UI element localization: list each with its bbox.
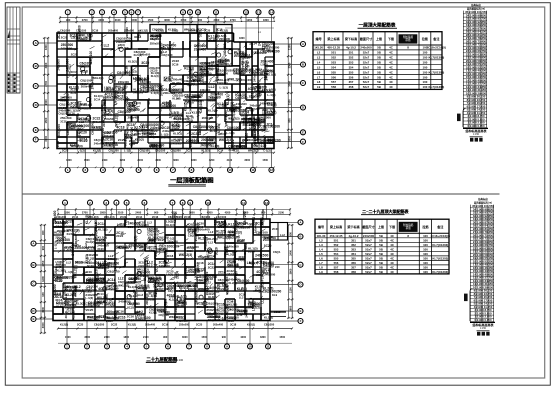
svg-text:2C25: 2C25	[127, 305, 134, 309]
svg-text:1800: 1800	[263, 18, 269, 22]
svg-text:C8@200: C8@200	[177, 284, 191, 288]
svg-text:52x7: 52x7	[365, 238, 372, 242]
svg-text:KL1(3): KL1(3)	[151, 74, 159, 78]
svg-text:2C14: 2C14	[248, 250, 255, 254]
svg-text:KL3(2): KL3(2)	[128, 59, 137, 63]
svg-text:240x600: 240x600	[171, 142, 182, 146]
svg-text:上筋: 上筋	[376, 36, 382, 41]
svg-text:L5(3): L5(3)	[89, 33, 93, 40]
svg-text:3C18: 3C18	[64, 311, 68, 318]
svg-text:KL3(2): KL3(2)	[86, 240, 95, 244]
svg-text:240x500: 240x500	[87, 288, 98, 292]
svg-text:2C16: 2C16	[172, 62, 179, 66]
svg-text:240x500: 240x500	[360, 46, 372, 50]
svg-text:240x400: 240x400	[138, 286, 150, 290]
svg-text:100: 100	[423, 243, 428, 247]
svg-text:1500: 1500	[288, 99, 292, 105]
svg-text:3C20: 3C20	[113, 75, 117, 83]
svg-text:WKL2(3): WKL2(3)	[228, 77, 242, 81]
svg-text:C8@200: C8@200	[241, 52, 245, 64]
svg-text:2C16: 2C16	[100, 104, 104, 111]
svg-text:3300: 3300	[288, 62, 292, 68]
svg-text:52x7: 52x7	[365, 256, 372, 260]
svg-text:WKL2(3): WKL2(3)	[92, 76, 103, 80]
svg-text:F: F	[302, 140, 304, 144]
svg-text:LL2: LL2	[239, 296, 244, 300]
svg-text:2C16: 2C16	[254, 121, 261, 125]
svg-text:1800: 1800	[123, 336, 129, 339]
svg-text:4C18: 4C18	[147, 98, 151, 105]
svg-text:2C14: 2C14	[94, 97, 101, 101]
svg-text:2C25: 2C25	[106, 319, 113, 323]
svg-text:C6@200: C6@200	[188, 245, 200, 249]
svg-text:2100: 2100	[137, 159, 143, 162]
svg-text:356: 356	[351, 261, 356, 265]
svg-text:KL2(5): KL2(5)	[236, 144, 245, 148]
svg-text:12: 12	[265, 201, 269, 205]
svg-text:5B: 5B	[379, 247, 383, 251]
svg-text:3C20: 3C20	[214, 247, 218, 255]
svg-text:C8@200: C8@200	[199, 100, 203, 113]
svg-text:4C18: 4C18	[86, 305, 93, 309]
svg-text:553: 553	[331, 61, 336, 65]
svg-text:3C18: 3C18	[97, 300, 105, 304]
svg-text:拉筋: 拉筋	[422, 224, 428, 229]
svg-text:100: 100	[423, 234, 428, 238]
svg-text:5B: 5B	[379, 234, 383, 238]
svg-text:二~二十九层顶大梁配筋表: 二~二十九层顶大梁配筋表	[362, 208, 408, 214]
svg-text:200x400: 200x400	[219, 37, 231, 41]
svg-text:52x7: 52x7	[363, 65, 370, 69]
svg-text:556: 556	[331, 75, 336, 79]
svg-text:52x7: 52x7	[363, 56, 370, 60]
svg-text:截面尺寸: 截面尺寸	[362, 224, 375, 229]
svg-text:358: 358	[351, 270, 356, 274]
svg-text:L5(3): L5(3)	[172, 29, 178, 33]
svg-text:554: 554	[334, 252, 339, 256]
svg-text:KL2(5): KL2(5)	[129, 302, 138, 306]
svg-text:2C16: 2C16	[117, 310, 124, 314]
svg-text:2C14: 2C14	[136, 215, 143, 219]
svg-text:L-1(3): L-1(3)	[53, 241, 57, 249]
svg-text:1500: 1500	[44, 117, 48, 123]
svg-text:KL2(5): KL2(5)	[267, 101, 277, 105]
svg-text:C8@100/200: C8@100/200	[263, 290, 282, 294]
svg-text:KL2(5): KL2(5)	[54, 230, 64, 234]
svg-text:C8@100: C8@100	[224, 58, 228, 70]
svg-text:100: 100	[423, 261, 428, 265]
svg-text:2C14: 2C14	[194, 95, 202, 99]
svg-text:4C18: 4C18	[256, 260, 264, 264]
svg-text:结构标高: 结构标高	[478, 197, 488, 201]
svg-text:2700: 2700	[44, 80, 48, 86]
svg-text:KL1(3): KL1(3)	[166, 223, 175, 227]
svg-text:下筋: 下筋	[388, 36, 394, 41]
svg-text:WKL2(3): WKL2(3)	[248, 305, 260, 309]
svg-text:KL3(2): KL3(2)	[225, 286, 229, 295]
svg-text:200x400: 200x400	[142, 131, 155, 135]
svg-text:240x400: 240x400	[118, 80, 129, 84]
svg-text:3300: 3300	[98, 18, 104, 22]
svg-text:3000: 3000	[288, 80, 292, 86]
svg-text:3000: 3000	[214, 18, 220, 22]
svg-text:L-1(3): L-1(3)	[85, 296, 93, 300]
svg-text:3C18: 3C18	[148, 292, 156, 296]
svg-text:KL3(2): KL3(2)	[56, 269, 65, 273]
svg-text:4g-10.2: 4g-10.2	[349, 234, 359, 238]
svg-text:L5(3): L5(3)	[54, 292, 61, 296]
svg-text:KL5(1): KL5(1)	[267, 111, 277, 115]
svg-text:100: 100	[422, 75, 427, 79]
svg-text:KL3(2): KL3(2)	[149, 312, 157, 315]
svg-text:L7: L7	[319, 261, 323, 265]
svg-text:3300: 3300	[44, 62, 48, 68]
svg-text:100: 100	[423, 270, 428, 274]
svg-text:5B: 5B	[379, 252, 383, 256]
svg-text:551: 551	[334, 238, 339, 242]
svg-text:2C25: 2C25	[255, 93, 262, 97]
svg-text:2C22: 2C22	[216, 233, 223, 237]
svg-text:3600: 3600	[164, 18, 170, 22]
svg-text:556: 556	[334, 261, 339, 265]
svg-text:3C18: 3C18	[124, 139, 128, 146]
svg-text:C8@200: C8@200	[101, 128, 105, 141]
svg-text:552: 552	[331, 56, 336, 60]
svg-text:3600: 3600	[189, 211, 195, 215]
svg-text:3600: 3600	[173, 159, 179, 162]
svg-text:KL7(X1303): KL7(X1303)	[432, 256, 448, 260]
svg-text:100: 100	[422, 61, 427, 65]
svg-text:3600: 3600	[84, 336, 90, 339]
svg-text:KL3(2): KL3(2)	[208, 295, 216, 299]
svg-text:5B: 5B	[377, 61, 381, 65]
svg-text:L-1(3): L-1(3)	[65, 270, 73, 274]
svg-text:2C16: 2C16	[184, 215, 191, 219]
svg-text:3C18: 3C18	[197, 225, 204, 229]
svg-text:2C14: 2C14	[155, 264, 159, 272]
svg-text:L-1(3): L-1(3)	[220, 86, 228, 90]
svg-text:3C20: 3C20	[148, 280, 156, 284]
svg-text:555: 555	[331, 70, 336, 74]
svg-text:KL7(X1303): KL7(X1303)	[432, 270, 448, 274]
svg-text:2C22: 2C22	[162, 105, 169, 109]
svg-text:2C16: 2C16	[162, 323, 169, 327]
svg-text:2C22: 2C22	[208, 265, 216, 269]
svg-text:5B: 5B	[377, 70, 381, 74]
svg-text:C8@100/200: C8@100/200	[224, 110, 228, 126]
svg-text:L3: L3	[319, 243, 323, 247]
svg-text:1:150: 1:150	[480, 327, 487, 330]
svg-text:C8@200: C8@200	[94, 323, 105, 327]
svg-text:240x400: 240x400	[265, 67, 269, 81]
svg-text:L9: L9	[319, 270, 323, 274]
svg-text:1800: 1800	[66, 159, 72, 162]
svg-text:3300: 3300	[260, 336, 266, 339]
svg-text:L-1(3): L-1(3)	[172, 127, 179, 131]
svg-text:240x500: 240x500	[88, 280, 99, 284]
svg-text:3600: 3600	[288, 268, 292, 274]
svg-text:900: 900	[222, 336, 227, 339]
svg-text:2C14: 2C14	[128, 225, 135, 229]
svg-text:2100: 2100	[143, 336, 149, 339]
svg-text:3C18: 3C18	[255, 288, 262, 292]
svg-text:1500: 1500	[279, 336, 285, 339]
svg-text:450-12.35: 450-12.35	[329, 234, 342, 238]
svg-text:3C20: 3C20	[150, 37, 158, 41]
svg-text:900: 900	[66, 18, 71, 22]
svg-text:555: 555	[334, 256, 339, 260]
svg-text:1800: 1800	[239, 37, 245, 40]
svg-text:1500: 1500	[84, 159, 90, 162]
svg-text:WKL2(3): WKL2(3)	[104, 215, 115, 219]
svg-text:5B: 5B	[379, 270, 383, 274]
svg-text:2400: 2400	[102, 159, 108, 162]
svg-text:L5(3): L5(3)	[194, 273, 198, 280]
svg-text:2C22: 2C22	[73, 287, 77, 294]
svg-text:KL3(2): KL3(2)	[249, 72, 257, 75]
svg-text:100: 100	[422, 70, 427, 74]
svg-text:2C16: 2C16	[92, 29, 99, 33]
svg-text:2C25: 2C25	[61, 35, 68, 39]
svg-text:10: 10	[228, 168, 232, 172]
svg-text:355: 355	[349, 70, 354, 74]
svg-text:C8@200: C8@200	[57, 124, 61, 136]
svg-text:梁下标高: 梁下标高	[344, 36, 357, 41]
svg-text:2100: 2100	[115, 18, 121, 22]
svg-text:2400: 2400	[288, 249, 292, 255]
svg-text:KL7(X1303): KL7(X1303)	[429, 70, 445, 74]
svg-text:KL3(2): KL3(2)	[135, 138, 144, 142]
svg-text:52x7: 52x7	[365, 270, 372, 274]
svg-text:1200: 1200	[41, 276, 45, 282]
svg-text:250x500: 250x500	[167, 240, 178, 244]
svg-text:100: 100	[423, 247, 428, 251]
svg-text:L5(3): L5(3)	[113, 282, 117, 289]
svg-text:52x7: 52x7	[365, 261, 372, 265]
svg-text:L5(3): L5(3)	[56, 266, 62, 269]
svg-text:5B: 5B	[379, 243, 383, 247]
svg-text:2C14: 2C14	[256, 273, 263, 277]
svg-text:52x7: 52x7	[363, 61, 370, 65]
svg-text:2C22: 2C22	[217, 287, 225, 291]
svg-text:450-12.35: 450-12.35	[327, 46, 340, 50]
svg-text:900: 900	[163, 336, 168, 339]
svg-text:1KL30: 1KL30	[314, 46, 323, 50]
svg-text:WKL2(3): WKL2(3)	[134, 236, 138, 250]
svg-text:KL5(1): KL5(1)	[56, 305, 65, 309]
svg-text:240x500: 240x500	[264, 273, 275, 277]
svg-text:C6@200: C6@200	[60, 29, 71, 33]
svg-text:5B: 5B	[379, 261, 383, 265]
svg-text:10: 10	[196, 10, 200, 14]
svg-text:3C18: 3C18	[230, 323, 237, 327]
svg-text:E: E	[32, 317, 34, 321]
svg-text:3600: 3600	[41, 306, 45, 312]
svg-text:240x400: 240x400	[254, 222, 258, 233]
svg-text:F: F	[300, 319, 302, 323]
svg-text:2C14: 2C14	[57, 241, 65, 245]
svg-text:2C25: 2C25	[199, 29, 203, 37]
svg-text:3C18: 3C18	[210, 129, 217, 133]
svg-text:2C16: 2C16	[177, 304, 185, 308]
svg-text:355: 355	[351, 256, 356, 260]
svg-text:L2: L2	[319, 238, 323, 242]
svg-text:上筋: 上筋	[378, 224, 384, 229]
svg-text:LL2: LL2	[167, 287, 173, 291]
svg-text:KL2(5): KL2(5)	[198, 237, 208, 241]
svg-text:240x500: 240x500	[61, 46, 73, 50]
svg-text:3C20: 3C20	[208, 141, 215, 145]
svg-text:5B: 5B	[377, 85, 381, 89]
svg-text:C6@200: C6@200	[204, 278, 208, 290]
svg-text:E: E	[35, 128, 37, 132]
svg-text:357: 357	[351, 265, 356, 269]
svg-text:3C18: 3C18	[187, 250, 194, 253]
svg-text:吊筋: 吊筋	[406, 226, 412, 230]
svg-text:3C20: 3C20	[264, 244, 272, 248]
svg-text:KL1(3): KL1(3)	[217, 102, 227, 106]
svg-text:KL2(5): KL2(5)	[60, 323, 68, 327]
svg-text:200x400: 200x400	[128, 116, 140, 120]
svg-text:2C16: 2C16	[56, 140, 60, 147]
svg-text:240x400: 240x400	[69, 127, 82, 131]
svg-text:L9: L9	[317, 85, 321, 89]
svg-text:KL7(X1303): KL7(X1303)	[429, 85, 445, 89]
svg-text:3C20: 3C20	[128, 109, 135, 113]
svg-text:4200: 4200	[209, 159, 215, 162]
svg-text:4C18: 4C18	[193, 142, 200, 145]
svg-text:下筋: 下筋	[389, 224, 395, 229]
svg-text:2C14: 2C14	[72, 215, 79, 219]
svg-text:L5(3): L5(3)	[145, 257, 149, 265]
svg-text:554: 554	[331, 65, 336, 69]
svg-text:3000: 3000	[288, 135, 292, 141]
svg-text:2700: 2700	[230, 18, 236, 22]
svg-text:2100: 2100	[288, 287, 292, 293]
svg-text:C8@100: C8@100	[233, 109, 246, 113]
svg-text:558: 558	[331, 85, 336, 89]
svg-text:200x400: 200x400	[145, 323, 156, 327]
svg-text:3C18: 3C18	[70, 34, 78, 38]
svg-text:WKL2(3): WKL2(3)	[228, 117, 239, 121]
svg-text:3300: 3300	[44, 44, 48, 50]
svg-text:C8@200: C8@200	[200, 215, 211, 219]
svg-text:900: 900	[41, 292, 45, 297]
svg-text:4200: 4200	[240, 336, 246, 339]
svg-text:KL1(3): KL1(3)	[224, 246, 228, 257]
svg-text:1500: 1500	[44, 99, 48, 105]
svg-text:WKL2(3): WKL2(3)	[71, 144, 83, 148]
svg-text:352: 352	[349, 56, 354, 60]
svg-text:C8@100: C8@100	[159, 313, 170, 317]
svg-text:3C18: 3C18	[197, 261, 204, 265]
svg-text:100: 100	[423, 238, 428, 242]
svg-text:5B: 5B	[377, 51, 381, 55]
svg-text:3C20: 3C20	[214, 311, 218, 318]
svg-text:一层顶大梁配筋表: 一层顶大梁配筋表	[359, 22, 396, 29]
svg-text:2700: 2700	[41, 260, 45, 266]
svg-text:557: 557	[334, 265, 339, 269]
svg-text:4200: 4200	[207, 211, 213, 215]
svg-text:KL1(3): KL1(3)	[128, 285, 137, 289]
svg-text:编号: 编号	[318, 224, 324, 229]
svg-text:KL2(5): KL2(5)	[98, 235, 107, 239]
svg-text:L-1(3): L-1(3)	[267, 93, 275, 97]
svg-text:354: 354	[351, 252, 356, 256]
svg-text:2100: 2100	[227, 159, 233, 162]
svg-text:拉筋: 拉筋	[422, 36, 428, 41]
svg-text:100: 100	[422, 80, 427, 84]
svg-text:2C25: 2C25	[98, 266, 105, 270]
svg-text:L5(3): L5(3)	[261, 63, 268, 67]
svg-text:240x600: 240x600	[194, 291, 198, 304]
svg-text:LL2: LL2	[200, 92, 205, 95]
svg-text:KL7(X1303): KL7(X1303)	[432, 243, 448, 247]
svg-text:552: 552	[334, 243, 339, 247]
svg-text:KL1(3): KL1(3)	[69, 86, 79, 90]
svg-text:LL2: LL2	[66, 261, 71, 265]
svg-text:L-1(3): L-1(3)	[151, 91, 159, 95]
svg-text:240: 240	[275, 265, 280, 269]
svg-text:L3: L3	[317, 56, 321, 60]
svg-text:WKL2(3): WKL2(3)	[229, 230, 242, 234]
svg-text:F: F	[35, 138, 37, 142]
svg-text:3C20: 3C20	[204, 29, 211, 33]
svg-text:C8@100: C8@100	[218, 278, 230, 282]
svg-text:2C14: 2C14	[207, 255, 215, 259]
svg-text:1500: 1500	[201, 336, 207, 339]
svg-text:52x7: 52x7	[363, 85, 370, 89]
svg-text:1500: 1500	[148, 18, 154, 22]
svg-text:LL2: LL2	[116, 129, 122, 133]
svg-text:KL2(5): KL2(5)	[156, 29, 164, 33]
svg-text:240x500: 240x500	[255, 254, 268, 258]
svg-text:2C14: 2C14	[80, 138, 88, 142]
svg-text:E: E	[299, 309, 301, 313]
svg-text:L6: L6	[317, 70, 321, 74]
svg-text:KL1(3): KL1(3)	[118, 91, 127, 95]
svg-text:1500: 1500	[64, 211, 70, 215]
svg-text:557: 557	[331, 80, 336, 84]
svg-text:100: 100	[422, 51, 427, 55]
svg-text:KL3(2): KL3(2)	[140, 29, 148, 33]
svg-text:备注: 备注	[436, 224, 444, 229]
svg-text:5B: 5B	[379, 238, 383, 242]
svg-text:KL2(5): KL2(5)	[174, 138, 183, 142]
svg-text:250x500: 250x500	[179, 323, 190, 327]
svg-text:4C18: 4C18	[138, 220, 145, 224]
svg-text:L5: L5	[317, 65, 321, 69]
svg-text:553: 553	[334, 247, 339, 251]
svg-text:1200: 1200	[120, 159, 126, 162]
svg-text:5B: 5B	[377, 65, 381, 69]
svg-text:C8@100: C8@100	[138, 316, 151, 320]
svg-text:2C14: 2C14	[218, 271, 226, 275]
svg-text:1500: 1500	[131, 18, 137, 22]
svg-text:3000: 3000	[41, 322, 45, 328]
svg-text:4C18: 4C18	[55, 298, 63, 302]
svg-text:3C20: 3C20	[141, 61, 149, 65]
svg-text:C8@1: C8@1	[273, 250, 281, 254]
svg-text:梁上标高: 梁上标高	[326, 36, 339, 41]
svg-text:梁上标高: 梁上标高	[329, 224, 342, 229]
svg-text:2C16: 2C16	[148, 298, 155, 301]
svg-text:L2: L2	[317, 51, 321, 55]
svg-text:KL3(2): KL3(2)	[71, 310, 75, 319]
svg-text:351: 351	[351, 238, 356, 242]
svg-text:KL2(5): KL2(5)	[79, 37, 89, 41]
svg-text:2C14: 2C14	[260, 280, 264, 288]
